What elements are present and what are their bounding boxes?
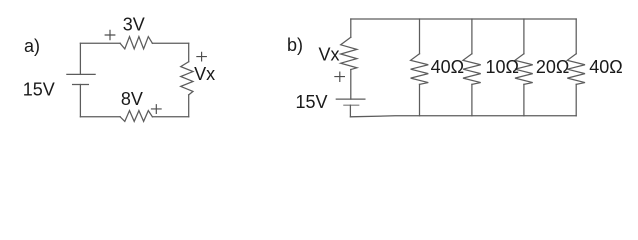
plus sign near Vx (circuit a) [196, 52, 207, 62]
svg-text:b): b) [287, 35, 303, 55]
resistor Vx zigzag (circuit b) [341, 37, 357, 69]
wire b left branch bottom [349, 105, 351, 117]
resistor Vx zigzag (circuit a) [181, 62, 193, 95]
top rail (circuit b) [351, 18, 576, 20]
wire a right lower [188, 95, 190, 117]
wire branch2 bottom [471, 84, 473, 115]
wire a top-left [80, 42, 120, 44]
wire a bottom-right [152, 116, 188, 118]
resistor 3V zigzag [120, 37, 152, 49]
resistor 20ohm zigzag [515, 54, 533, 85]
battery 15V plates (circuit b) [336, 98, 365, 100]
wire a right upper [188, 43, 190, 61]
wire a bottom-left [80, 116, 120, 118]
battery 15V plates (circuit a) [67, 73, 95, 75]
wire branch3 bottom [523, 84, 525, 115]
svg-text:Vx: Vx [319, 45, 340, 65]
svg-text:20Ω: 20Ω [536, 57, 569, 77]
wire a top-right [152, 42, 188, 44]
plus sign near 8V [151, 104, 162, 114]
wire b left branch middle [350, 70, 352, 100]
svg-text:40Ω: 40Ω [431, 57, 464, 77]
svg-text:3V: 3V [123, 15, 145, 35]
svg-text:8V: 8V [121, 89, 143, 109]
wire branch3 top [523, 19, 525, 54]
wire a left upper [79, 43, 81, 74]
svg-text:10Ω: 10Ω [486, 57, 519, 77]
svg-text:15V: 15V [296, 92, 328, 112]
wire branch1 top [419, 19, 421, 54]
resistor 40ohm #1 zigzag [411, 54, 429, 85]
wire b left branch top [350, 19, 352, 37]
svg-text:a): a) [24, 36, 40, 56]
resistor 8V zigzag [120, 111, 152, 122]
wire a left lower [79, 85, 81, 117]
bottom rail (circuit b) [350, 116, 576, 117]
svg-text:15V: 15V [23, 79, 55, 99]
wire branch1 bottom [419, 84, 421, 115]
wire branch4 bottom [575, 84, 577, 115]
svg-text:40Ω: 40Ω [589, 57, 622, 77]
plus sign near 3V [105, 30, 116, 41]
wire branch4 top [575, 19, 577, 54]
resistor 10ohm zigzag [463, 54, 481, 85]
resistor 40ohm #2 zigzag [567, 54, 585, 85]
svg-text:Vx: Vx [194, 64, 215, 84]
plus sign near Vx (circuit b) [334, 72, 345, 83]
wire branch2 top [471, 19, 473, 54]
